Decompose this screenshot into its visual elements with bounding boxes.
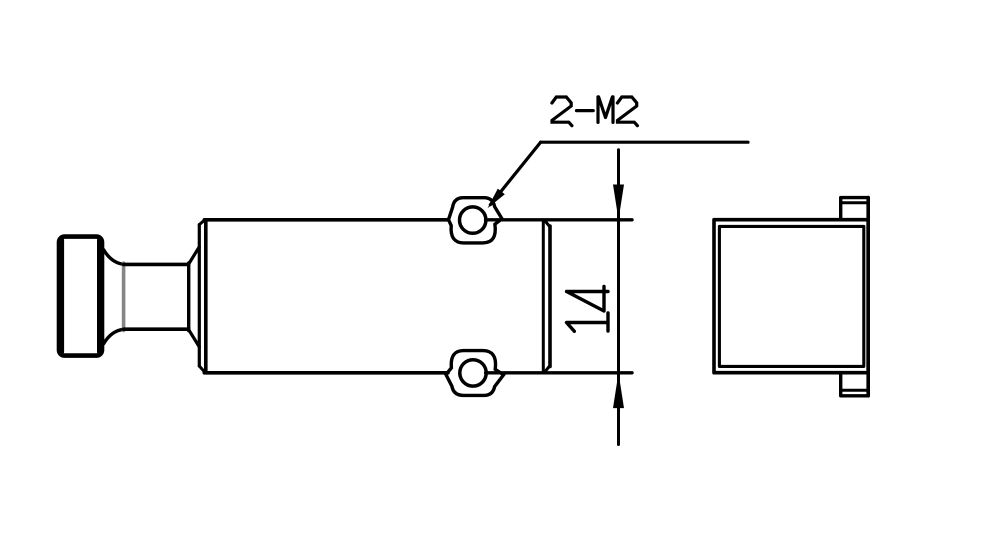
bottom mounting lug outline [446, 351, 504, 396]
body right top chamfer corner [546, 222, 550, 227]
neck top line [124, 263, 189, 267]
leader arrowhead [488, 189, 505, 209]
dimension top arrow (points down) [613, 185, 624, 220]
end view outer square [714, 220, 868, 373]
flange-to-body top corner [199, 220, 205, 225]
digit 4 of 14 [567, 287, 608, 312]
top lug tap hole circle [460, 207, 486, 233]
body top edge (left of lug) [204, 218, 448, 222]
body right bottom chamfer corner [546, 366, 550, 371]
body top edge + dimension extension (right of hole) [486, 218, 632, 221]
knob cap (side view, thick outline) [59, 237, 102, 356]
flare cone bottom edge [189, 330, 200, 347]
end view top tab [841, 198, 869, 219]
label 2-M2 : dash [577, 109, 594, 112]
end view top tab inner line [841, 201, 869, 204]
dimension line vertical [617, 150, 620, 445]
top mounting lug outline [449, 198, 503, 243]
flange edge line [198, 225, 201, 366]
leader horizontal line [541, 141, 748, 144]
label 2-M2 : digit 2 [552, 97, 572, 126]
neck end face [187, 263, 190, 331]
label 2-M2 : digit 2 (second) [617, 97, 637, 126]
fillet knob-to-neck bottom [104, 329, 125, 343]
end view bottom tab inner line [841, 389, 869, 392]
neck bottom line [124, 327, 189, 331]
end view right edge full span [866, 198, 870, 396]
body bottom edge (left of lug) [204, 371, 448, 375]
body right edge [548, 226, 552, 367]
label 2-M2 : letter M [598, 97, 613, 123]
flange-to-body bottom corner [199, 366, 205, 372]
body left edge [204, 221, 208, 372]
dimension text 14 (rotated) [567, 287, 609, 332]
digit 1 of 14 [567, 313, 609, 331]
leader diagonal line [490, 142, 540, 204]
body right end chamfer line [542, 221, 545, 371]
end view bottom tab [841, 373, 869, 395]
bottom lug tap hole circle [460, 360, 486, 386]
body bottom edge + dimension extension (right of hole) [486, 371, 632, 374]
flare cone top edge [189, 247, 200, 264]
dimension bottom arrow (points up) [613, 373, 624, 408]
neck tangent line (gray) [122, 263, 126, 330]
end view inner square [719, 226, 863, 366]
fillet knob-to-neck top [104, 250, 125, 265]
